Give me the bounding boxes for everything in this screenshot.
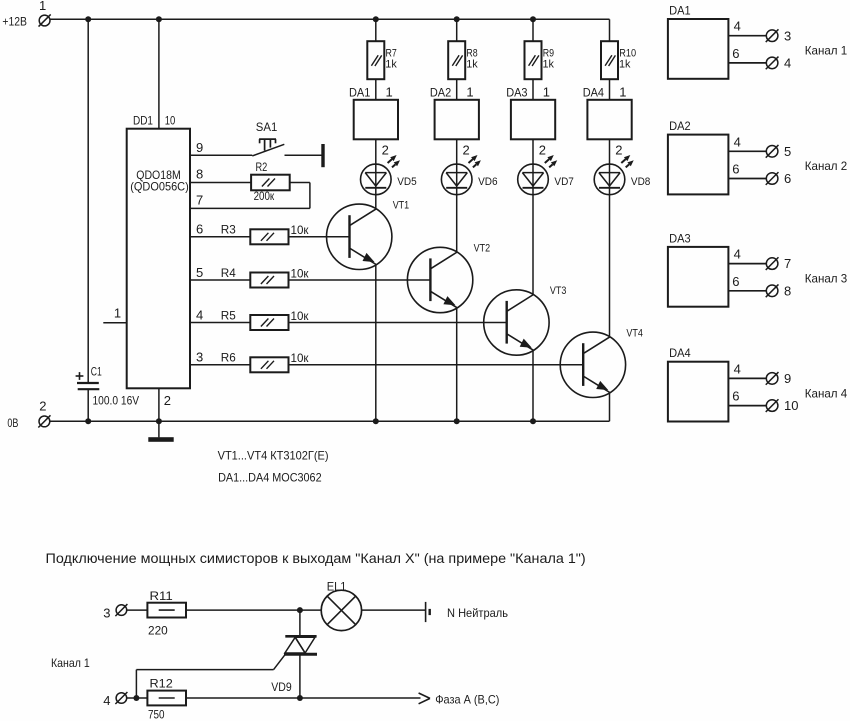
wire R7 to DA1 pin1 (376, 79, 393, 100)
svg-text:200к: 200к (254, 189, 275, 203)
wire VT1 emitter to 0V rail (375, 264, 377, 421)
svg-text:Канал 4: Канал 4 (805, 386, 848, 400)
node junction VD9/phase wire (297, 695, 303, 701)
svg-text:R3: R3 (221, 223, 236, 237)
svg-text:1: 1 (114, 306, 121, 321)
svg-text:10к: 10к (291, 351, 310, 365)
svg-text:VD6: VD6 (478, 176, 498, 188)
svg-text:10к: 10к (291, 266, 310, 280)
svg-text:N Нейтраль: N Нейтраль (447, 606, 508, 620)
svg-text:5: 5 (196, 265, 203, 280)
wire R5 to VT3 base (289, 322, 507, 324)
wire DD1 pin 2 to 0V rail (159, 388, 171, 421)
svg-text:1k: 1k (543, 59, 555, 71)
svg-text:EL1: EL1 (327, 579, 347, 593)
svg-text:(QDO056C): (QDO056C) (130, 179, 189, 193)
wire VD8 to VT4 collector (609, 195, 611, 338)
wire DA1 pin 6 (728, 46, 766, 63)
terminal 1 (+12V input) (2, 0, 50, 28)
svg-text:C1: C1 (91, 365, 102, 379)
terminal 8 (766, 283, 791, 298)
opto-triac DA3 (output) (668, 231, 729, 306)
svg-text:VT1...VT4 КТ3102Г(Е): VT1...VT4 КТ3102Г(Е) (218, 448, 329, 462)
transistor VT1 (327, 199, 410, 269)
wire rail to R8 (456, 19, 458, 41)
resistor R8 1k (448, 41, 478, 79)
svg-text:6: 6 (732, 162, 739, 177)
resistor R6 10k (221, 351, 309, 373)
svg-text:8: 8 (196, 167, 203, 182)
wire DD1 pin 9 (190, 140, 252, 155)
wire VD7 to VT3 collector (532, 195, 534, 295)
node junction emitter/0V rail (454, 418, 460, 424)
node junction emitter/0V rail (0, 0, 1, 1)
wire C1 branch vertical (87, 19, 89, 383)
wire terminal3 to R11 (127, 609, 148, 611)
node junction +12V/DD1 pin10 (156, 16, 162, 22)
sensor plate (contact bar) (321, 144, 324, 167)
wire DD1 pin 5 (190, 265, 250, 280)
LED VD5 (361, 155, 417, 195)
svg-text:10к: 10к (291, 223, 310, 237)
arrow phase output (419, 693, 430, 704)
svg-text:4: 4 (734, 134, 741, 149)
wire R10 to DA4 pin1 (610, 79, 627, 100)
resistor R11 220 (147, 589, 186, 638)
switch SA1 (sensor button) (252, 120, 284, 156)
svg-text:VD8: VD8 (631, 176, 651, 188)
wire DA2 pin2 to VD6 (457, 139, 470, 164)
svg-text:7: 7 (196, 192, 203, 207)
wire DA2 pin 4 (728, 134, 766, 151)
wire DD1 pin 3 (190, 350, 250, 365)
svg-text:6: 6 (732, 274, 739, 289)
LED VD6 (441, 155, 497, 195)
svg-text:R6: R6 (221, 351, 236, 365)
svg-text:DA4: DA4 (583, 85, 605, 99)
wire DA4 pin2 to VD8 (610, 139, 623, 164)
svg-text:8: 8 (784, 283, 791, 298)
svg-text:R12: R12 (150, 677, 174, 691)
node junction +12V rail / R9 (530, 16, 536, 22)
terminal 3 (766, 28, 791, 43)
resistor R12 750 (147, 677, 186, 721)
wire rail to R10 (609, 19, 611, 41)
transistor VT2 (407, 243, 490, 313)
svg-text:R5: R5 (221, 308, 236, 322)
node junction pin2/0V rail (156, 418, 162, 424)
wire DA1 pin2 to VD5 (376, 139, 389, 164)
svg-text:DA1: DA1 (669, 3, 691, 17)
resistor R10 1k (601, 41, 636, 79)
svg-text:2: 2 (382, 143, 389, 158)
ground symbol (148, 421, 173, 442)
terminal 10 (766, 398, 799, 413)
svg-text:Подключение мощных симисторов: Подключение мощных симисторов к выходам … (46, 550, 586, 566)
terminal 9 (766, 371, 791, 386)
svg-text:4: 4 (734, 247, 741, 262)
wire DD1 pin 10 (159, 19, 176, 128)
wire EL1 to neutral (362, 609, 426, 611)
svg-text:DA3: DA3 (506, 85, 528, 99)
svg-text:2: 2 (539, 143, 546, 158)
svg-text:10: 10 (165, 113, 176, 127)
svg-text:DA3: DA3 (669, 231, 691, 245)
svg-text:1: 1 (619, 84, 626, 99)
wire DD1 pin 8 (190, 167, 251, 183)
svg-text:750: 750 (148, 708, 165, 721)
LED VD8 (594, 155, 650, 195)
wire SA1 to sensor plate (285, 154, 322, 156)
svg-text:3: 3 (196, 350, 203, 365)
lamp EL1 (321, 579, 361, 630)
svg-text:4: 4 (784, 56, 791, 71)
terminal 7 (766, 256, 791, 271)
wire R2 to pin 7 (290, 183, 310, 209)
svg-text:10к: 10к (291, 309, 310, 323)
optocoupler DA3 (506, 85, 555, 139)
resistor R7 1k (367, 41, 397, 79)
LED VD7 (518, 155, 574, 195)
terminal 4 (766, 56, 791, 71)
svg-text:1k: 1k (466, 59, 478, 71)
svg-text:100.0 16V: 100.0 16V (93, 393, 140, 407)
opto-triac DA1 (output) (668, 3, 729, 78)
svg-text:9: 9 (784, 371, 791, 386)
svg-text:DA4: DA4 (669, 346, 691, 360)
svg-text:+12В: +12В (2, 14, 27, 28)
resistor R3 10k (221, 223, 309, 245)
svg-text:4: 4 (196, 307, 203, 322)
wire DA3 pin 4 (728, 247, 766, 264)
svg-text:3: 3 (103, 605, 110, 620)
svg-text:R4: R4 (221, 266, 236, 280)
svg-text:VD9: VD9 (271, 680, 292, 694)
wire R12 to phase output (186, 697, 421, 699)
optocoupler DA1 (349, 85, 398, 139)
opto-triac DA2 (output) (668, 119, 729, 194)
wire VD5 to VT1 collector (375, 195, 377, 210)
wire R9 to DA3 pin1 (533, 79, 550, 100)
node junction emitter/0V rail (530, 418, 536, 424)
wire DA4 pin 6 (728, 389, 766, 406)
svg-text:6: 6 (732, 46, 739, 61)
svg-text:7: 7 (784, 256, 791, 271)
svg-text:3: 3 (784, 28, 791, 43)
optocoupler DA2 (430, 85, 479, 139)
transistor VT4 (560, 327, 643, 397)
svg-text:SA1: SA1 (256, 120, 278, 134)
node junction +12V rail / R10 (0, 0, 1, 1)
svg-text:VT1: VT1 (393, 199, 410, 211)
wire C1 to 0V rail (87, 389, 89, 421)
svg-text:Канал 1: Канал 1 (51, 656, 90, 670)
svg-text:2: 2 (39, 399, 46, 414)
pin 1 stub of DD1 (103, 306, 126, 323)
transistor VT3 (484, 285, 567, 355)
node junction C1/0V rail (85, 418, 91, 424)
svg-text:1: 1 (386, 84, 393, 99)
terminal 5 (766, 144, 791, 159)
svg-text:R2: R2 (256, 160, 268, 174)
svg-text:Фаза А (В,С): Фаза А (В,С) (435, 693, 499, 707)
node junction +12V rail / R7 (373, 16, 379, 22)
svg-text:4: 4 (734, 19, 741, 34)
wire VT2 emitter to 0V rail (456, 307, 458, 421)
node junction +12V rail / R8 (454, 16, 460, 22)
svg-text:2: 2 (164, 393, 171, 408)
triac VD9 (271, 636, 317, 694)
svg-text:6: 6 (196, 222, 203, 237)
svg-text:2: 2 (463, 143, 470, 158)
svg-text:DA2: DA2 (669, 119, 691, 133)
chip DD1 QDO18M (QDO056C) (127, 113, 190, 388)
wire VD9 cathode to phase line (299, 654, 301, 698)
svg-text:1: 1 (39, 0, 46, 13)
terminal 3 (bottom) (103, 604, 127, 620)
svg-text:R11: R11 (150, 589, 174, 603)
svg-text:1: 1 (466, 84, 473, 99)
wire DA4 pin 4 (728, 361, 766, 378)
terminal 4 (bottom) (103, 692, 127, 708)
wire DD1 pin 6 (190, 222, 250, 237)
svg-text:DA1...DA4 МОС3062: DA1...DA4 МОС3062 (218, 470, 322, 484)
svg-text:DA2: DA2 (430, 85, 452, 99)
node junction emitter/0V rail (373, 418, 379, 424)
node junction R11/VD9 (297, 607, 303, 613)
wire DA3 pin2 to VD7 (533, 139, 546, 164)
svg-text:9: 9 (196, 140, 203, 155)
svg-text:1k: 1k (385, 59, 397, 71)
node junction gate/terminal4 (133, 695, 139, 701)
neutral connector symbol (426, 602, 431, 622)
svg-text:5: 5 (784, 144, 791, 159)
svg-text:6: 6 (732, 389, 739, 404)
wire 0V bottom rail (50, 420, 610, 422)
svg-text:10: 10 (784, 398, 798, 413)
svg-text:6: 6 (784, 171, 791, 186)
wire VD6 to VT2 collector (456, 195, 458, 253)
svg-text:VT4: VT4 (626, 327, 643, 339)
capacitor C1 100.0 16V (76, 365, 140, 408)
wire VT3 emitter to 0V rail (532, 350, 534, 421)
resistor R5 10k (221, 308, 309, 330)
wire rail to R9 (532, 19, 534, 41)
node junction +12V/C1 (85, 16, 91, 22)
svg-text:2: 2 (615, 143, 622, 158)
wire DD1 pin 7 (190, 192, 310, 208)
wire DD1 pin 4 (190, 307, 250, 322)
wire R6 to VT4 base (289, 364, 584, 366)
svg-text:220: 220 (148, 623, 168, 637)
wire DA3 pin 6 (728, 274, 766, 291)
wire VD9 anode branch (299, 610, 301, 635)
resistor R2 200k (251, 160, 290, 203)
svg-text:VD5: VD5 (397, 176, 417, 188)
svg-text:DD1: DD1 (133, 113, 153, 127)
svg-text:VD7: VD7 (554, 176, 574, 188)
optocoupler DA4 (583, 85, 632, 139)
wire VD9 gate (136, 655, 285, 698)
svg-text:VT3: VT3 (550, 285, 567, 297)
wire DA1 pin 4 (728, 19, 766, 36)
svg-text:Канал 3: Канал 3 (805, 272, 848, 286)
svg-text:Канал 2: Канал 2 (805, 159, 848, 173)
wire R8 to DA2 pin1 (457, 79, 474, 100)
wire VT4 emitter to 0V rail (609, 392, 611, 421)
resistor R9 1k (525, 41, 555, 79)
wire DA2 pin 6 (728, 162, 766, 179)
resistor R4 10k (221, 266, 309, 288)
svg-text:VT2: VT2 (474, 243, 491, 255)
svg-text:4: 4 (734, 361, 741, 376)
wire R3 to VT1 base (289, 236, 350, 238)
wire R11 to lamp EL1 (186, 609, 321, 611)
svg-text:4: 4 (103, 693, 110, 708)
wire rail to R7 (375, 19, 377, 41)
svg-text:DA1: DA1 (349, 85, 371, 99)
svg-text:Канал 1: Канал 1 (805, 44, 848, 58)
wire +12V top rail (50, 18, 609, 20)
wire R4 to VT2 base (289, 279, 431, 281)
terminal 6 (766, 171, 791, 186)
opto-triac DA4 (output) (668, 346, 729, 421)
terminal 2 (0V) (7, 399, 50, 430)
svg-text:1: 1 (543, 84, 550, 99)
svg-text:0В: 0В (7, 416, 18, 430)
svg-text:1k: 1k (619, 59, 631, 71)
wire terminal4 to R12 (127, 697, 148, 699)
